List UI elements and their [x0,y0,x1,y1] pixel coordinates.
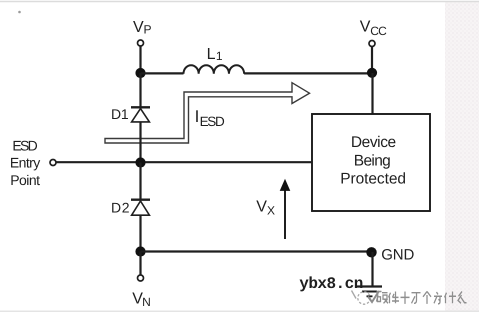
label IESD [195,107,225,129]
万 [412,293,421,304]
svg-text:V: V [256,199,267,216]
svg-text:V: V [360,18,371,35]
wire node A to inductor L1 [141,72,184,74]
ground symbol [357,287,383,297]
wire diode D2 to node D [139,215,141,251]
ESD current path arrow (hollow elbow arrow) [105,83,310,143]
node D (VN junction) [135,246,145,256]
label VCC [360,18,387,38]
wire diode D1 to node C [139,122,141,163]
VX arrow [280,179,291,239]
svg-text:V: V [133,19,144,36]
svg-text:Being: Being [354,152,391,169]
件 [389,292,400,304]
svg-text:X: X [267,204,275,218]
label L1 [207,46,223,63]
svg-text:ybx8.cn: ybx8.cn [299,275,363,293]
svg-text:Entry: Entry [10,154,40,170]
wire node D to GND node (bottom rail) [141,250,373,252]
svg-text:Point: Point [10,172,40,188]
svg-text:GND: GND [381,247,414,264]
svg-text:D1: D1 [111,106,129,122]
label VP [133,19,152,37]
terminal VP [138,40,144,46]
node B (VCC junction) [367,68,377,78]
svg-text:N: N [142,295,151,309]
wire inductor L1 to node B [244,72,372,74]
watermark chinese caption (drawn strokes) [377,292,467,304]
svg-text:Device: Device [351,134,396,151]
watermark logo [352,291,380,305]
十 [401,292,410,304]
wire node D to VN terminal [139,252,141,275]
diode D2 (cathode bar + triangle) [131,200,150,216]
为 [434,292,442,304]
svg-text:ESD: ESD [12,138,37,154]
terminal VN [138,275,144,281]
ESD entry point terminal [50,160,56,166]
device box U1 "Device Being Protected" [312,114,430,211]
svg-text:L: L [207,46,216,63]
label VN [132,291,151,310]
terminal VCC [369,41,375,47]
wire node C to diode D2 [139,163,141,199]
wire ESD entry terminal to device box (through node C) [56,161,312,163]
硬 [377,292,389,304]
什 [445,292,457,304]
svg-text:Protected: Protected [340,171,406,188]
svg-text:1: 1 [216,49,223,63]
svg-text:ESD: ESD [200,114,225,129]
么 [458,292,467,304]
node C (ESD entry / D1 / D2 junction) [135,157,145,167]
wire GND node to ground symbol [371,252,373,286]
个 [423,292,431,304]
inductor L1 [184,65,245,74]
svg-text:P: P [144,23,152,37]
wire VCC terminal to node B [371,47,373,73]
svg-text:CC: CC [370,24,387,38]
svg-text:D2: D2 [111,200,130,216]
label VX [256,199,275,218]
label ESD Entry Point [10,138,40,188]
wire VP terminal to node A [139,46,141,73]
node A (VP / L1 / D1 junction) [135,68,145,78]
wire node B to device box [371,73,373,114]
wire node A to diode D1 [139,73,141,107]
node GND junction [366,247,376,257]
diode D1 (cathode bar + triangle) [131,107,150,122]
